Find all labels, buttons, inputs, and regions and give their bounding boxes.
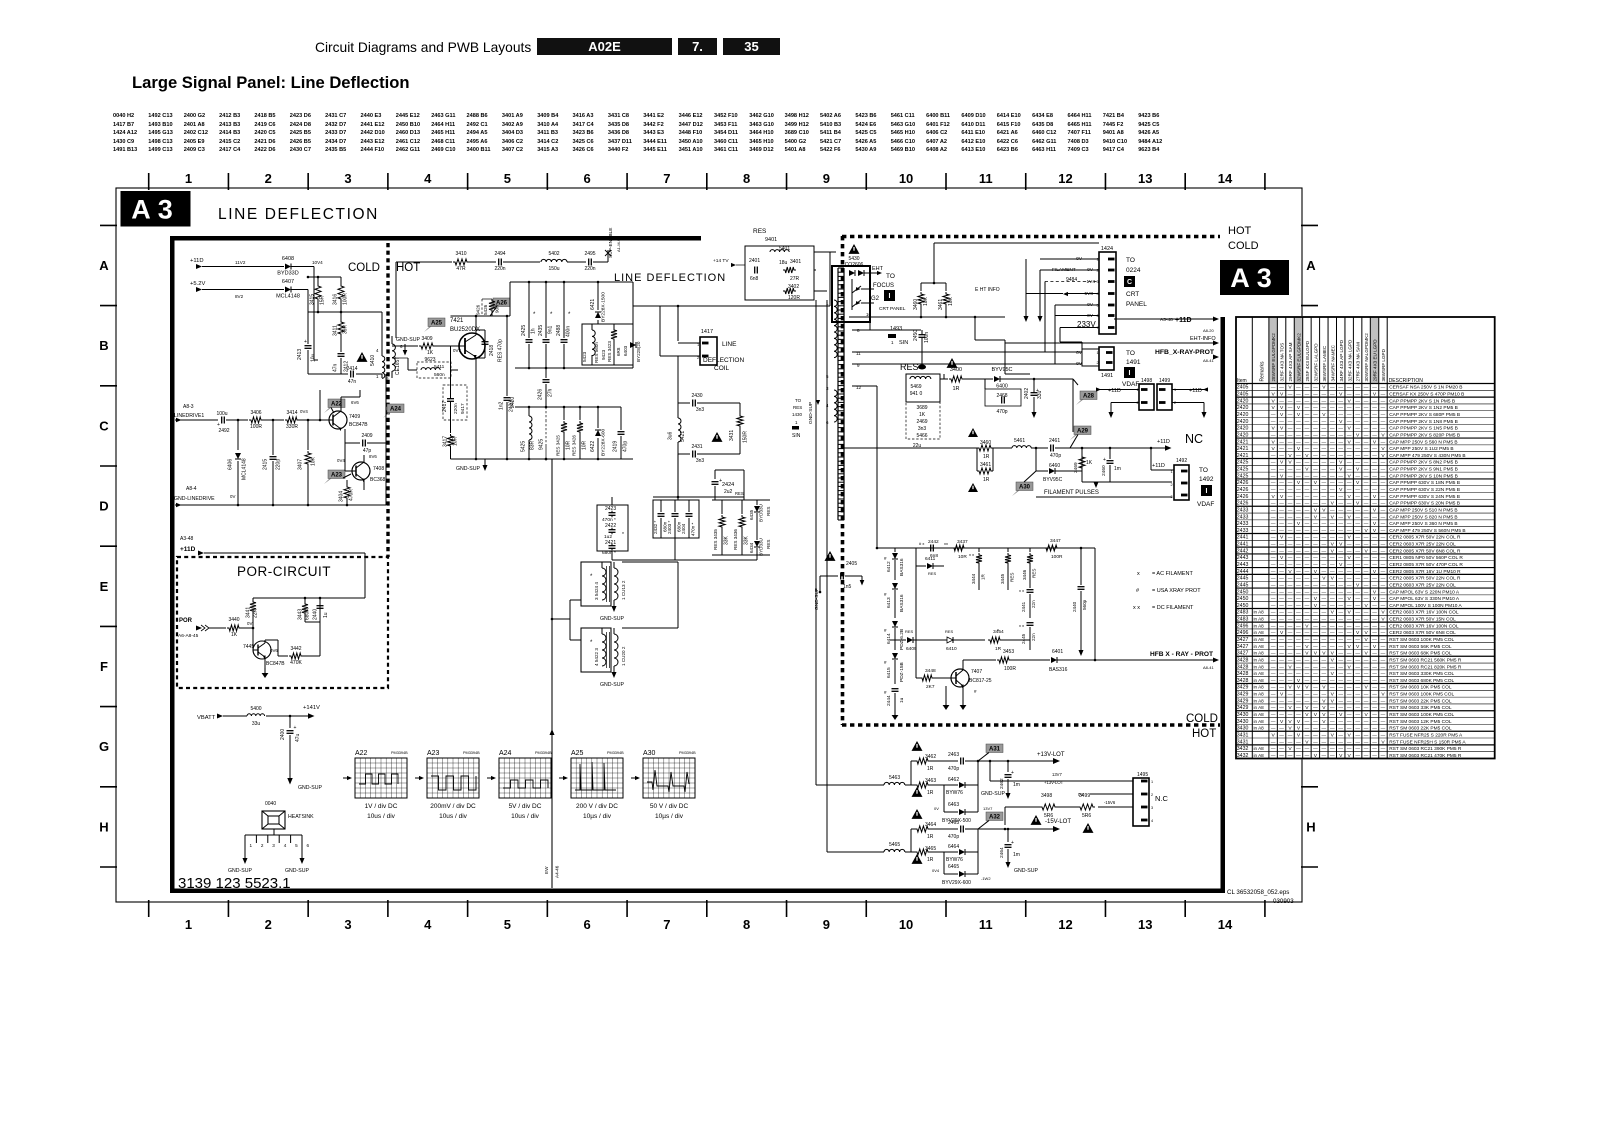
resistor 3435 33K xyxy=(712,499,770,501)
svg-text:14: 14 xyxy=(1218,917,1233,932)
svg-text:—: — xyxy=(1338,494,1343,499)
svg-text:—: — xyxy=(1347,480,1352,485)
svg-text:A: A xyxy=(99,258,109,273)
svg-text:—: — xyxy=(1347,569,1352,574)
svg-text:0V4: 0V4 xyxy=(932,868,940,873)
svg-text:5421: 5421 xyxy=(680,431,686,442)
svg-text:BYV29X-600: BYV29X-600 xyxy=(942,880,971,886)
svg-text:29RF 4X3 AP SAM: 29RF 4X3 AP SAM xyxy=(1288,342,1293,381)
svg-text:—: — xyxy=(1355,535,1360,540)
svg-text:—: — xyxy=(1271,644,1276,649)
svg-text:#: # xyxy=(884,628,887,633)
tag A31 xyxy=(982,752,990,758)
svg-text:—: — xyxy=(1296,610,1301,615)
svg-text:—: — xyxy=(1381,705,1386,710)
ground 2440 xyxy=(1078,650,1083,656)
wire +11D to POR xyxy=(204,552,365,554)
svg-text:—: — xyxy=(1288,405,1293,410)
svg-text:RES 3423: RES 3423 xyxy=(607,341,612,362)
svg-text:RST SM 0603 68K PM5 COL: RST SM 0603 68K PM5 COL xyxy=(1389,651,1452,657)
capacitor 2400 47u xyxy=(289,716,291,728)
svg-text:3499: 3499 xyxy=(1079,793,1090,799)
svg-text:A31: A31 xyxy=(989,747,1001,753)
svg-text:CAP MPP 250V S 360 N PM5: CAP MPP 250V S 360 N PM5 B xyxy=(1389,521,1457,527)
svg-text:—: — xyxy=(1338,698,1343,703)
svg-text:3: 3 xyxy=(826,386,829,391)
svg-text:—: — xyxy=(1322,569,1327,574)
svg-text:—: — xyxy=(1322,494,1327,499)
svg-text:3440: 3440 xyxy=(228,617,239,623)
svg-text:—: — xyxy=(1271,521,1276,526)
capacitor 2409 47p xyxy=(344,429,346,443)
svg-text:CAP PPMPP 2KV S 680P PM5 B: CAP PPMPP 2KV S 680P PM5 B xyxy=(1389,412,1460,418)
svg-text:—: — xyxy=(1347,392,1352,397)
svg-text:2442: 2442 xyxy=(928,539,939,545)
svg-text:—: — xyxy=(1271,637,1276,642)
svg-text:GND-SUP: GND-SUP xyxy=(981,791,1005,797)
svg-text:1R: 1R xyxy=(995,646,1002,652)
svg-text:—: — xyxy=(1322,657,1327,662)
svg-text:—: — xyxy=(1364,555,1369,560)
svg-text:—: — xyxy=(1372,746,1377,751)
svg-text:RES: RES xyxy=(928,571,937,576)
svg-text:2450: 2450 xyxy=(913,330,919,341)
svg-text:RES: RES xyxy=(753,228,767,235)
svg-text:7: 7 xyxy=(663,171,670,186)
wire emitter 7408 down xyxy=(363,480,365,490)
svg-text:—: — xyxy=(1330,603,1335,608)
svg-text:—: — xyxy=(1305,473,1310,478)
svg-text:—: — xyxy=(1330,569,1335,574)
wire right vertical x382 xyxy=(381,312,383,356)
svg-text:—: — xyxy=(1296,501,1301,506)
wire crt extra 3 xyxy=(1044,282,1046,353)
wire gnd-linedrive bus xyxy=(175,504,386,506)
svg-text:—: — xyxy=(1330,596,1335,601)
svg-text:470p: 470p xyxy=(1050,453,1061,459)
wire CU20 loop xyxy=(622,627,678,629)
svg-text:in A8: in A8 xyxy=(1254,617,1265,622)
svg-text:—: — xyxy=(1296,705,1301,710)
transistor 7445 BC847B xyxy=(253,641,271,659)
svg-text:5423: 5423 xyxy=(582,351,587,362)
svg-text:*: * xyxy=(568,312,571,318)
svg-text:—: — xyxy=(1381,678,1386,683)
svg-text:030903: 030903 xyxy=(1273,898,1294,905)
svg-text:1u: 1u xyxy=(899,697,905,703)
svg-text:RST SM 0603 RC21 560K PM5 R: RST SM 0603 RC21 560K PM5 R xyxy=(1389,657,1462,663)
svg-text:—: — xyxy=(1372,535,1377,540)
svg-text:—: — xyxy=(1288,473,1293,478)
svg-text:—: — xyxy=(1305,542,1310,547)
svg-text:A30: A30 xyxy=(1019,485,1031,491)
svg-text:—: — xyxy=(1364,480,1369,485)
svg-text:—: — xyxy=(1364,494,1369,499)
svg-text:—: — xyxy=(1322,603,1327,608)
svg-text:—: — xyxy=(1288,692,1293,697)
svg-text:2418: 2418 xyxy=(489,345,495,356)
svg-text:—: — xyxy=(1338,739,1343,744)
svg-text:9: 9 xyxy=(823,917,830,932)
svg-text:12: 12 xyxy=(1058,917,1072,932)
svg-text:3411: 3411 xyxy=(333,325,339,336)
svg-text:—: — xyxy=(1313,419,1318,424)
svg-text:BC847B: BC847B xyxy=(266,661,285,667)
warning triangle above 3464 xyxy=(912,809,923,819)
svg-text:1K: 1K xyxy=(1086,460,1093,466)
svg-text:—: — xyxy=(1364,514,1369,519)
svg-text:—: — xyxy=(1271,419,1276,424)
svg-text:—: — xyxy=(1355,446,1360,451)
svg-text:5: 5 xyxy=(826,374,829,379)
svg-text:—: — xyxy=(1338,507,1343,512)
svg-text:#: # xyxy=(884,660,887,665)
svg-text:7445: 7445 xyxy=(243,644,254,650)
svg-text:—: — xyxy=(1330,412,1335,417)
svg-text:—: — xyxy=(1347,726,1352,731)
svg-text:A1-M-93: A1-M-93 xyxy=(616,236,621,252)
svg-text:—: — xyxy=(1381,467,1386,472)
svg-text:2403 *: 2403 * xyxy=(667,521,672,534)
svg-text:—: — xyxy=(1296,528,1301,533)
svg-text:470p: 470p xyxy=(996,409,1007,415)
inductor 5400 33u xyxy=(247,714,265,716)
svg-text:2444: 2444 xyxy=(886,695,892,706)
svg-text:2463: 2463 xyxy=(948,752,959,758)
svg-text:—: — xyxy=(1347,548,1352,553)
svg-text:1V / div DC: 1V / div DC xyxy=(365,803,398,810)
svg-text:10R: 10R xyxy=(582,440,588,450)
inductor 5402 150u xyxy=(541,259,567,262)
svg-text:—: — xyxy=(1364,582,1369,587)
svg-text:—: — xyxy=(1330,630,1335,635)
svg-text:2405: 2405 xyxy=(846,561,857,567)
svg-text:CL 36532058_052.eps: CL 36532058_052.eps xyxy=(1227,889,1289,896)
resistor 3464 1R xyxy=(910,829,912,852)
svg-text:9425: 9425 xyxy=(539,439,545,450)
svg-text:—: — xyxy=(1381,732,1386,737)
svg-text:—: — xyxy=(1305,732,1310,737)
svg-text:A29: A29 xyxy=(1077,429,1089,435)
capacitor 2430 3n3 xyxy=(692,400,694,407)
svg-text:2404: 2404 xyxy=(681,523,686,534)
dashed box 5411 560n xyxy=(417,362,451,378)
svg-text:5402: 5402 xyxy=(548,251,559,257)
svg-text:PM3394B: PM3394B xyxy=(391,751,408,755)
svg-text:—: — xyxy=(1279,678,1284,683)
svg-text:—: — xyxy=(1364,501,1369,506)
svg-text:—: — xyxy=(1313,576,1318,581)
capacitor 2417 220n 9417 dashed xyxy=(450,346,452,385)
svg-text:x x: x x xyxy=(1019,588,1024,593)
svg-text:—: — xyxy=(1347,712,1352,717)
svg-text:—: — xyxy=(1296,460,1301,465)
svg-text:PM3394B: PM3394B xyxy=(679,751,696,755)
svg-text:1R: 1R xyxy=(927,834,934,840)
svg-text:—: — xyxy=(1372,664,1377,669)
svg-text:—: — xyxy=(1322,467,1327,472)
svg-text:120R: 120R xyxy=(788,295,800,301)
wire 1492 pin2 xyxy=(1110,481,1172,483)
svg-text:GND-SUP: GND-SUP xyxy=(456,466,480,472)
svg-text:—: — xyxy=(1279,732,1284,737)
svg-text:3n3: 3n3 xyxy=(696,458,705,464)
capacitor 2460 1m xyxy=(1109,448,1111,459)
wire EHT info top xyxy=(934,242,1099,244)
svg-text:2413: 2413 xyxy=(297,349,303,360)
svg-text:—: — xyxy=(1381,507,1386,512)
svg-text:—: — xyxy=(1381,412,1386,417)
svg-text:—: — xyxy=(1322,671,1327,676)
svg-text:+11D: +11D xyxy=(1175,317,1192,324)
svg-text:1491: 1491 xyxy=(1101,373,1113,379)
svg-text:CER2 0603 X7R 50V 6N8 COL: CER2 0603 X7R 50V 6N8 COL xyxy=(1389,630,1456,636)
capacitor 2464 1m xyxy=(1007,829,1009,842)
svg-text:—: — xyxy=(1279,446,1284,451)
svg-text:—: — xyxy=(1381,576,1386,581)
svg-text:6465: 6465 xyxy=(948,864,959,870)
svg-text:—: — xyxy=(1372,685,1377,690)
svg-text:BY228X-1500: BY228X-1500 xyxy=(601,292,607,322)
svg-text:—: — xyxy=(1288,637,1293,642)
wire xray top bus xyxy=(877,547,1095,549)
svg-text:—: — xyxy=(1288,739,1293,744)
svg-text:2433: 2433 xyxy=(1237,514,1249,520)
svg-text:—: — xyxy=(1305,426,1310,431)
svg-text:BY228(20: BY228(20 xyxy=(636,341,641,362)
svg-text:—: — xyxy=(1347,453,1352,458)
svg-text:—: — xyxy=(1364,412,1369,417)
diode 6414 PDZ-6.2B xyxy=(892,621,898,627)
svg-text:—: — xyxy=(1364,460,1369,465)
svg-text:—: — xyxy=(1296,637,1301,642)
svg-text:—: — xyxy=(1305,480,1310,485)
svg-text:150R: 150R xyxy=(743,431,749,443)
svg-text:—: — xyxy=(1330,453,1335,458)
svg-text:—: — xyxy=(1355,589,1360,594)
module label box A3 top-left xyxy=(121,191,191,227)
svg-text:2415: 2415 xyxy=(263,459,269,470)
svg-text:—: — xyxy=(1355,746,1360,751)
svg-text:—: — xyxy=(1313,617,1318,622)
resistor 3426 10R xyxy=(579,407,581,420)
svg-text:2409: 2409 xyxy=(361,433,372,439)
svg-text:—: — xyxy=(1364,405,1369,410)
ground heatsink right xyxy=(299,858,304,864)
ground bus y459 xyxy=(451,458,553,460)
svg-text:2421: 2421 xyxy=(1237,453,1249,459)
diode 6464 BYW76 xyxy=(944,851,958,853)
resistor 3436 33K xyxy=(741,500,743,514)
svg-text:1498: 1498 xyxy=(1141,378,1152,384)
svg-text:5: 5 xyxy=(504,917,511,932)
svg-text:10R: 10R xyxy=(453,436,459,446)
resistor 3444 1R xyxy=(978,548,980,552)
resistor 3414 330R xyxy=(285,417,299,423)
svg-text:CAP PPMPP 2KV S 1N5 PM5 B: CAP PPMPP 2KV S 1N5 PM5 B xyxy=(1389,426,1458,432)
svg-text:9423: 9423 xyxy=(601,349,606,360)
svg-text:10u: 10u xyxy=(311,353,317,362)
svg-text:3429: 3429 xyxy=(1237,698,1249,704)
svg-text:2419: 2419 xyxy=(613,441,619,452)
svg-text:CERSAF KX 250V S 470P PM10 B: CERSAF KX 250V S 470P PM10 B xyxy=(1389,392,1464,398)
svg-text:PM3394B: PM3394B xyxy=(535,751,552,755)
svg-text:—: — xyxy=(1372,582,1377,587)
svg-text:A4-46: A4-46 xyxy=(555,865,560,878)
svg-text:—: — xyxy=(1313,555,1318,560)
diode 6401 BAS316 xyxy=(1051,657,1057,663)
svg-text:—: — xyxy=(1288,535,1293,540)
svg-text:—: — xyxy=(1338,657,1343,662)
svg-text:4: 4 xyxy=(424,171,432,186)
svg-text:—: — xyxy=(1364,644,1369,649)
svg-text:EHT-INFO: EHT-INFO xyxy=(1190,336,1216,342)
svg-text:—: — xyxy=(1330,385,1335,390)
capacitor 2465 470p xyxy=(944,828,958,830)
svg-text:A22: A22 xyxy=(355,750,368,757)
svg-text:—: — xyxy=(1271,535,1276,540)
svg-text:+: + xyxy=(304,339,307,345)
svg-text:—: — xyxy=(1355,398,1360,403)
svg-text:3401: 3401 xyxy=(790,259,801,265)
svg-text:2495: 2495 xyxy=(584,251,595,257)
svg-text:+13V-LOT: +13V-LOT xyxy=(1044,780,1064,785)
svg-text:—: — xyxy=(1271,385,1276,390)
svg-text:—: — xyxy=(1322,617,1327,622)
svg-text:2445: 2445 xyxy=(1237,576,1249,582)
svg-text:—: — xyxy=(1381,753,1386,758)
wire junction to resistors xyxy=(291,289,308,291)
svg-text:SIN: SIN xyxy=(792,433,801,439)
svg-text:3447: 3447 xyxy=(1050,538,1061,544)
svg-text:—: — xyxy=(1313,637,1318,642)
svg-text:1495: 1495 xyxy=(1137,772,1148,778)
resistor 3446 RES xyxy=(1029,548,1031,552)
svg-text:—: — xyxy=(1305,528,1310,533)
ground 2444 xyxy=(894,710,896,715)
transformer primary winding coil xyxy=(834,300,837,358)
svg-text:—: — xyxy=(1279,698,1284,703)
warning triangle below 3461 xyxy=(968,483,978,492)
svg-text:—: — xyxy=(1288,671,1293,676)
wires 1424 pins left xyxy=(1040,258,1099,260)
svg-text:DEFLECTION: DEFLECTION xyxy=(703,357,744,364)
svg-text:—: — xyxy=(1364,726,1369,731)
svg-text:—: — xyxy=(1372,719,1377,724)
svg-text:3430: 3430 xyxy=(1237,712,1249,718)
svg-text:+11D: +11D xyxy=(180,546,196,553)
svg-text:—: — xyxy=(1271,453,1276,458)
svg-text:18u: 18u xyxy=(779,260,788,266)
svg-text:#: # xyxy=(884,690,887,695)
svg-text:—: — xyxy=(1296,439,1301,444)
svg-text:7409: 7409 xyxy=(349,414,360,420)
svg-text:—: — xyxy=(1313,630,1318,635)
svg-text:CER1 0805 NP0 50V 560P COL R: CER1 0805 NP0 50V 560P COL R xyxy=(1389,555,1463,561)
svg-text:1: 1 xyxy=(250,843,253,848)
svg-text:—: — xyxy=(1372,712,1377,717)
node +13V-LOT xyxy=(977,760,980,763)
svg-text:—: — xyxy=(1305,698,1310,703)
svg-text:2: 2 xyxy=(1151,793,1153,797)
svg-text:—: — xyxy=(1355,487,1360,492)
svg-text:1: 1 xyxy=(376,374,379,379)
dashed resistors 9426 5426 90R xyxy=(481,299,483,316)
svg-text:—: — xyxy=(1288,480,1293,485)
heatsink pins xyxy=(245,834,302,836)
svg-text:3432: 3432 xyxy=(1237,753,1249,759)
svg-text:10us / div: 10us / div xyxy=(367,813,396,820)
svg-text:—: — xyxy=(1322,514,1327,519)
svg-text:—: — xyxy=(1279,644,1284,649)
svg-text:—: — xyxy=(1381,480,1386,485)
wire LOT feed 2 xyxy=(827,851,884,853)
svg-text:—: — xyxy=(1364,671,1369,676)
svg-text:2433: 2433 xyxy=(1237,507,1249,513)
svg-text:1n5: 1n5 xyxy=(843,584,852,590)
svg-text:—: — xyxy=(1330,521,1335,526)
svg-text:2405: 2405 xyxy=(1237,385,1249,391)
svg-text:CER2 0805 X7R 50V 6N8 COL R: CER2 0805 X7R 50V 6N8 COL R xyxy=(1389,548,1461,554)
svg-text:I: I xyxy=(889,293,891,300)
svg-text:2496: 2496 xyxy=(1237,623,1249,629)
svg-text:27R: 27R xyxy=(790,276,800,282)
svg-text:—: — xyxy=(1347,671,1352,676)
warning triangle 5410 xyxy=(357,352,368,362)
svg-text:—: — xyxy=(1347,603,1352,608)
svg-text:—: — xyxy=(1305,582,1310,587)
svg-text:47u: 47u xyxy=(295,733,301,742)
svg-text:—: — xyxy=(1372,610,1377,615)
svg-text:—: — xyxy=(1338,528,1343,533)
svg-text:—: — xyxy=(1271,739,1276,744)
svg-text:3442: 3442 xyxy=(290,646,301,652)
svg-text:—: — xyxy=(1296,562,1301,567)
svg-text:470p: 470p xyxy=(623,441,629,452)
svg-text:470n *: 470n * xyxy=(691,523,696,536)
svg-text:—: — xyxy=(1364,507,1369,512)
resistor 3416 100R xyxy=(338,284,344,301)
svg-text:—: — xyxy=(1296,739,1301,744)
svg-text:—: — xyxy=(1271,542,1276,547)
svg-text:—: — xyxy=(1296,385,1301,390)
connector 1491 xyxy=(1099,347,1114,370)
svg-text:—: — xyxy=(1372,426,1377,431)
svg-text:RST SM 0603 RC21 820K PM5 R: RST SM 0603 RC21 820K PM5 R xyxy=(1389,664,1462,670)
svg-text:—: — xyxy=(1364,453,1369,458)
svg-text:—: — xyxy=(1372,473,1377,478)
svg-text:TO: TO xyxy=(795,398,802,403)
svg-text:3461: 3461 xyxy=(938,299,944,310)
svg-text:—: — xyxy=(1372,576,1377,581)
svg-text:—: — xyxy=(1313,473,1318,478)
svg-text:BYD33D: BYD33D xyxy=(277,271,298,277)
capacitor 2420 1n2 xyxy=(506,316,508,396)
svg-text:1m: 1m xyxy=(1013,852,1020,858)
svg-text:10: 10 xyxy=(899,171,913,186)
svg-text:32RF 4X3 NA LGPD: 32RF 4X3 NA LGPD xyxy=(1347,339,1352,382)
svg-text:—: — xyxy=(1322,753,1327,758)
svg-text:CAP PPMPP 2KV S 1N PM5 B: CAP PPMPP 2KV S 1N PM5 B xyxy=(1389,398,1455,404)
svg-text:—: — xyxy=(1347,405,1352,410)
svg-text:10µs / div: 10µs / div xyxy=(655,813,684,820)
svg-text:2414: 2414 xyxy=(346,366,357,372)
svg-text:LINE: LINE xyxy=(722,341,737,348)
svg-text:—: — xyxy=(1271,548,1276,553)
svg-text:2440: 2440 xyxy=(1072,601,1077,612)
svg-text:—: — xyxy=(1372,678,1377,683)
svg-text:—: — xyxy=(1322,528,1327,533)
